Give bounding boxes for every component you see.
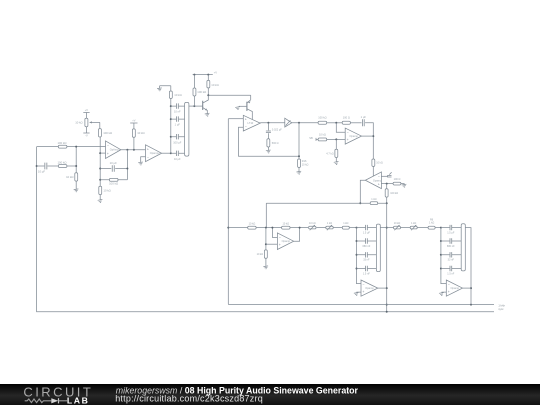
resistor R29 1k — [428, 219, 435, 229]
svg-text:1 kΩ: 1 kΩ — [343, 222, 348, 225]
svg-text:10 kΩ: 10 kΩ — [249, 223, 256, 226]
wire: row y203 — [266, 202, 386, 204]
node bank2 input — [440, 227, 442, 229]
ground (R23) — [263, 266, 268, 269]
wire: U2 inverting stub to ground — [141, 157, 146, 163]
svg-text:10 kΩ: 10 kΩ — [257, 253, 264, 256]
svg-text:10 kΩ: 10 kΩ — [137, 131, 144, 135]
resistor R12 100k — [318, 116, 327, 125]
capacitor bank1 C3 10 nF — [171, 103, 185, 113]
ground (R15) — [334, 161, 339, 164]
wire: U9 output — [463, 287, 472, 289]
wire: R7 down to output row — [133, 137, 135, 149]
resistor R19 100k — [385, 189, 398, 197]
resistor R26 1k — [342, 222, 349, 229]
capacitor bank2 C12 1.5 nF — [357, 266, 377, 276]
resistor R11 snubber — [267, 139, 279, 147]
wire: U3 output row — [260, 122, 285, 124]
wire: long vertical x386.7 — [386, 184, 388, 313]
svg-text:10 kΩ: 10 kΩ — [302, 163, 309, 166]
wire: bank1 left rail — [356, 228, 362, 284]
svg-text:10 kΩ: 10 kΩ — [376, 162, 383, 165]
wire: Q2 base stub — [238, 105, 240, 108]
wire: R14 to U5 +in — [327, 138, 346, 140]
ground (R3) — [74, 189, 79, 192]
potentiometer P1 -V supply — [83, 127, 89, 138]
svg-text:100 kΩ: 100 kΩ — [58, 161, 67, 165]
resistor R8 bank top — [169, 86, 181, 99]
svg-text:-V: -V — [85, 134, 88, 138]
capacitor bank1 C4 1 µF — [171, 116, 185, 126]
wire: R17 to U6 top pin — [372, 166, 374, 176]
svg-text:+: + — [362, 290, 364, 294]
wire: U7 -input loop — [271, 227, 277, 238]
wire: row2 — [37, 165, 77, 167]
wire: bank left rail — [170, 99, 172, 154]
wire: row corner down x373 — [365, 123, 374, 159]
node A — [265, 227, 267, 229]
svg-text:1 kΩ: 1 kΩ — [327, 222, 332, 225]
transistor Q1 — [194, 95, 208, 113]
resistor R9 100k to Q1 base — [193, 75, 206, 107]
svg-text:4.7 kΩ: 4.7 kΩ — [326, 152, 333, 155]
resistor R13 100ohm — [342, 116, 350, 125]
capacitor C1 (row2) — [38, 163, 47, 174]
wire: SW3 output down x471 — [465, 228, 472, 305]
wire: buffer out row — [292, 122, 318, 124]
ground (bank top) — [157, 88, 162, 91]
svg-text:100 kΩ: 100 kΩ — [103, 131, 112, 135]
svg-text:LT10: LT10 — [248, 121, 254, 125]
svg-text:+V: +V — [214, 70, 218, 74]
ground (R18) — [402, 184, 407, 187]
svg-text:−: − — [279, 236, 281, 240]
wire: row to C8 — [350, 122, 361, 124]
wire: R16 to ground — [298, 167, 300, 171]
wire: filter row 2 — [387, 227, 441, 229]
svg-text:−: − — [362, 283, 364, 287]
capacitor C2 feedback 10uF — [110, 161, 117, 172]
wire: filter row base — [228, 227, 356, 229]
svg-text:+: + — [448, 290, 450, 294]
resistor R2 (row2) — [58, 161, 67, 168]
svg-text:100 kΩ: 100 kΩ — [318, 116, 326, 120]
resistor R15 4.7k to ground — [326, 139, 337, 162]
svg-text:1.5 nF: 1.5 nF — [447, 272, 455, 275]
potentiometer P1 +V supply — [83, 108, 89, 118]
wire: +V rail — [193, 70, 218, 75]
svg-text:10 kΩ: 10 kΩ — [75, 120, 82, 124]
op-amp U6 — [365, 172, 382, 189]
capacitor bank3 C14 680 nF — [441, 238, 461, 248]
resistor R1 (input row1) — [58, 141, 67, 148]
transistor Q2 — [239, 100, 252, 120]
ground (U9) — [439, 292, 444, 295]
svg-text:10 nF: 10 nF — [174, 110, 181, 114]
svg-text:100 Ω: 100 Ω — [394, 178, 401, 181]
capacitor bank3 C13 1.5 µF — [441, 225, 461, 235]
svg-text:Opamp: Opamp — [373, 178, 382, 182]
svg-text:http://circuitlab.com/c2k3cszd: http://circuitlab.com/c2k3cszd87zrq — [115, 394, 263, 404]
svg-text:500 Ω: 500 Ω — [272, 142, 279, 145]
capacitor C7 snubber — [266, 123, 282, 139]
svg-text:100 Ω: 100 Ω — [343, 116, 350, 120]
svg-text:+: + — [245, 118, 247, 122]
svg-text:10 µF: 10 µF — [38, 169, 45, 173]
switch SW1 selector bar — [185, 102, 189, 156]
resistor R16 10k to ground — [298, 159, 309, 167]
trimmer R24 10k — [309, 222, 316, 230]
svg-text:100 kΩ: 100 kΩ — [197, 90, 206, 94]
resistor R7 pull-up 10k — [132, 129, 144, 137]
svg-text:33 nF: 33 nF — [363, 259, 370, 262]
resistor R23 10k to ground — [257, 250, 268, 258]
svg-text:LAB: LAB — [67, 395, 90, 405]
net flag SB — [309, 136, 318, 141]
resistor R20 1k — [370, 198, 378, 205]
svg-text:100 kΩ: 100 kΩ — [58, 141, 67, 145]
svg-text:10 kΩ: 10 kΩ — [319, 133, 326, 137]
ground (U2) — [138, 162, 143, 165]
capacitor bank2 C10 680 nF — [357, 238, 377, 248]
+V supply for U1 output pull-up — [130, 119, 137, 130]
svg-text:+: + — [279, 243, 281, 247]
ground (R16) — [296, 171, 301, 174]
svg-text:Opamp: Opamp — [451, 286, 460, 290]
wire: U8 output — [378, 287, 387, 289]
node label output probes — [498, 305, 505, 312]
svg-text:10 kΩ: 10 kΩ — [211, 83, 218, 87]
resistor R4 (wiper 100k) — [99, 129, 113, 137]
wire: R18 to ground — [401, 184, 404, 185]
svg-text:−: − — [107, 144, 109, 148]
resistor R22 10k — [282, 223, 290, 230]
op-amp U3 — [243, 115, 260, 131]
ground (snubber) — [266, 150, 271, 153]
op-amp U2 buffer — [146, 145, 162, 162]
capacitor bank2 C9 1.5 µF — [357, 225, 377, 235]
svg-text:+: + — [347, 138, 349, 142]
svg-text:−: − — [147, 155, 149, 159]
svg-text:100 kΩ: 100 kΩ — [109, 181, 118, 185]
wire: U7 cell vertical — [265, 228, 267, 267]
resistor R3 to ground — [66, 173, 78, 181]
svg-text:1.5 nF: 1.5 nF — [363, 272, 371, 275]
svg-text:−: − — [378, 175, 380, 179]
svg-text:10 kΩ: 10 kΩ — [394, 222, 401, 225]
svg-text:SB: SB — [309, 136, 313, 140]
svg-text:10 µF: 10 µF — [110, 161, 117, 165]
capacitor bank1 C5 100 µF — [171, 134, 185, 144]
capacitor C8 1uF — [361, 115, 367, 126]
node bank1 input — [356, 227, 358, 229]
capacitor bank3 C15 33 nF — [441, 252, 461, 262]
wire: U1 output row — [121, 149, 146, 151]
svg-text:1 kΩ: 1 kΩ — [411, 222, 416, 225]
wire: row y203 left corner down — [265, 203, 267, 227]
ground (Q2 base) — [235, 107, 240, 110]
resistor R21 10k — [248, 223, 256, 230]
capacitor bank2 C11 33 nF — [357, 252, 377, 262]
svg-text:1 kHz: 1 kHz — [498, 305, 505, 308]
svg-text:−: − — [347, 131, 349, 135]
svg-text:+: + — [107, 152, 109, 156]
wire: row between R12 R13 — [327, 122, 343, 124]
svg-text:0.022 µF: 0.022 µF — [272, 129, 282, 132]
wire: snubber to ground — [267, 147, 269, 150]
wire: U8 +input to ground — [357, 291, 361, 294]
svg-text:1 µF: 1 µF — [361, 115, 367, 119]
svg-text:1.5 µF: 1.5 µF — [447, 232, 455, 235]
svg-text:Opamp: Opamp — [349, 134, 358, 138]
node: row2 junction at column — [36, 165, 38, 167]
wire: collector node row — [207, 94, 250, 100]
wire: U6 upper input cap — [381, 172, 391, 177]
svg-text:10 kΩ: 10 kΩ — [309, 222, 316, 225]
svg-text:1.5 µF: 1.5 µF — [363, 232, 371, 235]
ground (Q1 emitter) — [205, 113, 210, 116]
ground (U8) — [354, 292, 359, 295]
wire: U6 lower input row — [381, 183, 393, 185]
switch SW2 selector bar — [376, 224, 380, 272]
svg-text:1 kΩ: 1 kΩ — [429, 222, 434, 225]
svg-text:+V: +V — [132, 119, 136, 123]
wire: left column + bottom output wire A — [37, 147, 494, 312]
wire: vertical x76 between rows — [75, 146, 77, 190]
svg-text:−: − — [245, 125, 247, 129]
svg-text:10 kΩ: 10 kΩ — [174, 93, 181, 97]
wire: feedback column x228 from U3 +in down to wire B — [227, 119, 229, 305]
trimmer R25 1k — [326, 222, 333, 230]
svg-text:10 kΩ: 10 kΩ — [103, 188, 110, 192]
svg-text:Opamp2: Opamp2 — [150, 151, 161, 155]
op-amp U9 — [446, 280, 462, 296]
ground (R5) — [98, 199, 103, 202]
trimmer R28 1k — [410, 222, 417, 230]
svg-text:sync: sync — [498, 308, 504, 311]
svg-text:+: + — [378, 182, 380, 186]
svg-text:680 nF: 680 nF — [447, 245, 455, 248]
wire: R12/R13 node to U5 -in — [336, 123, 345, 133]
wire: wiper rail down — [99, 122, 101, 199]
op-amp U7 — [277, 233, 293, 250]
svg-text:10 kΩ: 10 kΩ — [282, 223, 289, 226]
op-amp U1 — [106, 141, 121, 159]
wire: feedback resistor row + vertical — [100, 150, 128, 180]
wire: switch output to Q1 base node — [189, 105, 195, 107]
svg-text:33 nF: 33 nF — [448, 259, 455, 262]
footer title text — [115, 385, 358, 403]
svg-text:OpAmp1: OpAmp1 — [110, 148, 121, 152]
wire: U7 output up — [294, 227, 301, 242]
resistor R14 10k — [318, 133, 327, 141]
wire: U6 output down — [359, 180, 365, 204]
wire: U3 +input row — [228, 118, 243, 120]
wire: SW2 output to x386.7 — [380, 227, 386, 229]
wire: stub to U1 inverting input — [100, 152, 105, 154]
wire: bank2 left rail — [440, 228, 446, 284]
op-amp U8 — [361, 280, 378, 296]
wire: feedback cap row — [100, 168, 127, 170]
svg-text:Opamp: Opamp — [365, 286, 374, 290]
svg-text:Opamp: Opamp — [282, 239, 291, 243]
op-amp U5 — [345, 128, 361, 144]
wire: bank feed from ground — [160, 86, 171, 89]
resistor R6 feedback 100k — [109, 178, 118, 185]
svg-text:+V: +V — [85, 108, 89, 112]
switch SW3 selector bar — [461, 224, 465, 271]
wire: vertical x299 to feedback row — [298, 123, 300, 159]
wire: U2 output to cap bank rail — [162, 152, 172, 154]
resistor R10 10k Q1 collector — [207, 75, 219, 96]
wire: U5 output — [362, 135, 374, 137]
svg-text:−: − — [448, 283, 450, 287]
trimmer R27 10k — [394, 222, 401, 230]
svg-text:+: + — [147, 148, 149, 152]
resistor R18 100ohm — [393, 178, 401, 185]
resistor R17 10k vertical — [372, 159, 383, 166]
svg-text:1 µF: 1 µF — [175, 123, 181, 127]
svg-text:1 kΩ: 1 kΩ — [371, 198, 376, 201]
wire: U3 inverting feedback loop — [239, 127, 300, 156]
wire: U9 +input to ground — [442, 291, 446, 294]
resistor R5 (to ground) — [99, 186, 111, 194]
wire: output wire B — [229, 304, 494, 306]
capacitor bank3 C16 1.5 nF — [441, 266, 461, 276]
svg-text:100 µF: 100 µF — [173, 140, 182, 144]
svg-text:10 kΩ: 10 kΩ — [66, 175, 73, 179]
svg-text:10 µF: 10 µF — [174, 157, 181, 161]
svg-text:680 nF: 680 nF — [363, 245, 371, 248]
svg-text:100 kΩ: 100 kΩ — [390, 192, 398, 195]
wire: U7 +input — [266, 243, 278, 245]
buffer U4 — [285, 118, 292, 127]
wire: row1 to op-amp U1 noninverting input — [37, 146, 106, 148]
node: inverting rail taps — [99, 152, 101, 181]
capacitor bank1 C6 10 µF — [171, 151, 185, 161]
potentiometer P1 — [75, 118, 100, 127]
CircuitLab logo — [23, 384, 93, 405]
